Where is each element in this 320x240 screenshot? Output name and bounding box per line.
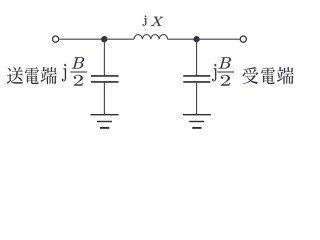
- wire: inductor to node B: [168, 38, 197, 40]
- text 電 char2 of 送電端: [25, 67, 39, 84]
- text 端 char3 of 送電端: [41, 67, 57, 84]
- label jX: letter j: [143, 16, 147, 26]
- wire: node A to inductor: [104, 38, 134, 40]
- left label: letter j: [62, 64, 66, 81]
- wire: capacitor C1 to ground: [103, 83, 105, 114]
- capacitor C2 bottom plate: [183, 81, 210, 83]
- right label: digit 2 (denominator): [221, 75, 230, 86]
- capacitor C1 bottom plate: [91, 81, 119, 83]
- text 端 char3 of 受電端: [277, 67, 294, 84]
- node A junction dot (left): [101, 36, 107, 42]
- label jX: letter X (italic): [151, 17, 163, 26]
- wire: capacitor C2 to ground: [196, 83, 198, 114]
- capacitor C2 top plate: [183, 75, 210, 77]
- text 送 (soudenTAN sending-end) char1: [7, 67, 23, 84]
- capacitor C1 top plate: [91, 75, 119, 77]
- wire: node A down to capacitor C1: [103, 39, 105, 75]
- text 受 char1 of 受電端 (receiving-end): [243, 67, 259, 84]
- inductor jX (4 arcs): [134, 35, 168, 40]
- left label: digit 2 (denominator): [74, 75, 83, 86]
- wire: node B to right terminal: [197, 38, 240, 40]
- ground symbol (left): [91, 115, 119, 128]
- ground symbol (right): [183, 115, 211, 128]
- wire: left terminal to node A: [59, 38, 104, 40]
- terminal circle: sending-end top-left: [53, 36, 59, 42]
- left label: letter B (italic, numerator): [72, 57, 84, 68]
- right label: fraction bar: [217, 71, 234, 73]
- wire: node B down to capacitor C2: [196, 39, 198, 75]
- left label: fraction bar: [70, 71, 87, 73]
- node B junction dot (right): [193, 36, 199, 42]
- right label: letter j: [212, 64, 216, 81]
- terminal circle: receiving-end top-right: [240, 36, 246, 42]
- text 電 char2 of 受電端: [261, 67, 275, 84]
- right label: letter B (italic, numerator): [219, 57, 231, 68]
